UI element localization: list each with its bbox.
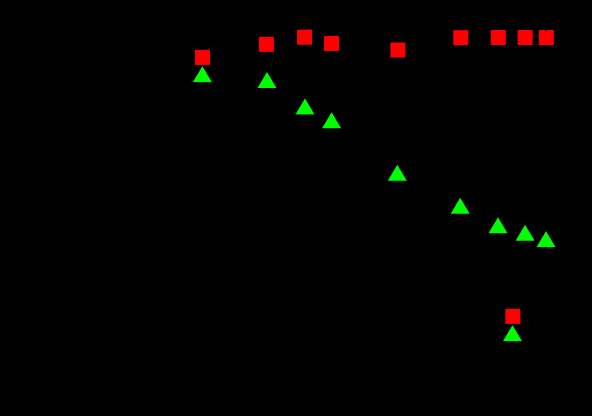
green triangle point 8 (x=32): [516, 225, 535, 241]
red square point 3 (x=3): [297, 30, 312, 45]
legend red square sample: [505, 309, 520, 324]
green triangle point 5 (x=8): [388, 165, 407, 181]
green triangle point 2 (x=2): [258, 72, 277, 88]
red square point 6 (x=16): [453, 30, 468, 45]
tick notch over square 9: [545, 30, 547, 31]
green triangle point 7 (x=24): [489, 217, 508, 233]
green triangle point 9 (x=40): [537, 231, 556, 247]
red square point 2 (x=2): [259, 37, 274, 52]
red square point 5 (x=8): [390, 43, 405, 58]
legend green triangle sample: [503, 325, 522, 341]
red square point 1 (x=1): [195, 50, 210, 65]
red square point 4 (x=4): [324, 36, 339, 51]
red square point 7 (x=24): [491, 30, 506, 45]
green triangle point 1 (x=1): [193, 66, 212, 82]
green triangle point 4 (x=4): [322, 112, 341, 128]
red square point 9 (x=40): [539, 30, 554, 45]
green triangle point 3 (x=3): [296, 98, 315, 114]
red square point 8 (x=32): [518, 30, 533, 45]
green triangle point 6 (x=16): [451, 198, 470, 214]
